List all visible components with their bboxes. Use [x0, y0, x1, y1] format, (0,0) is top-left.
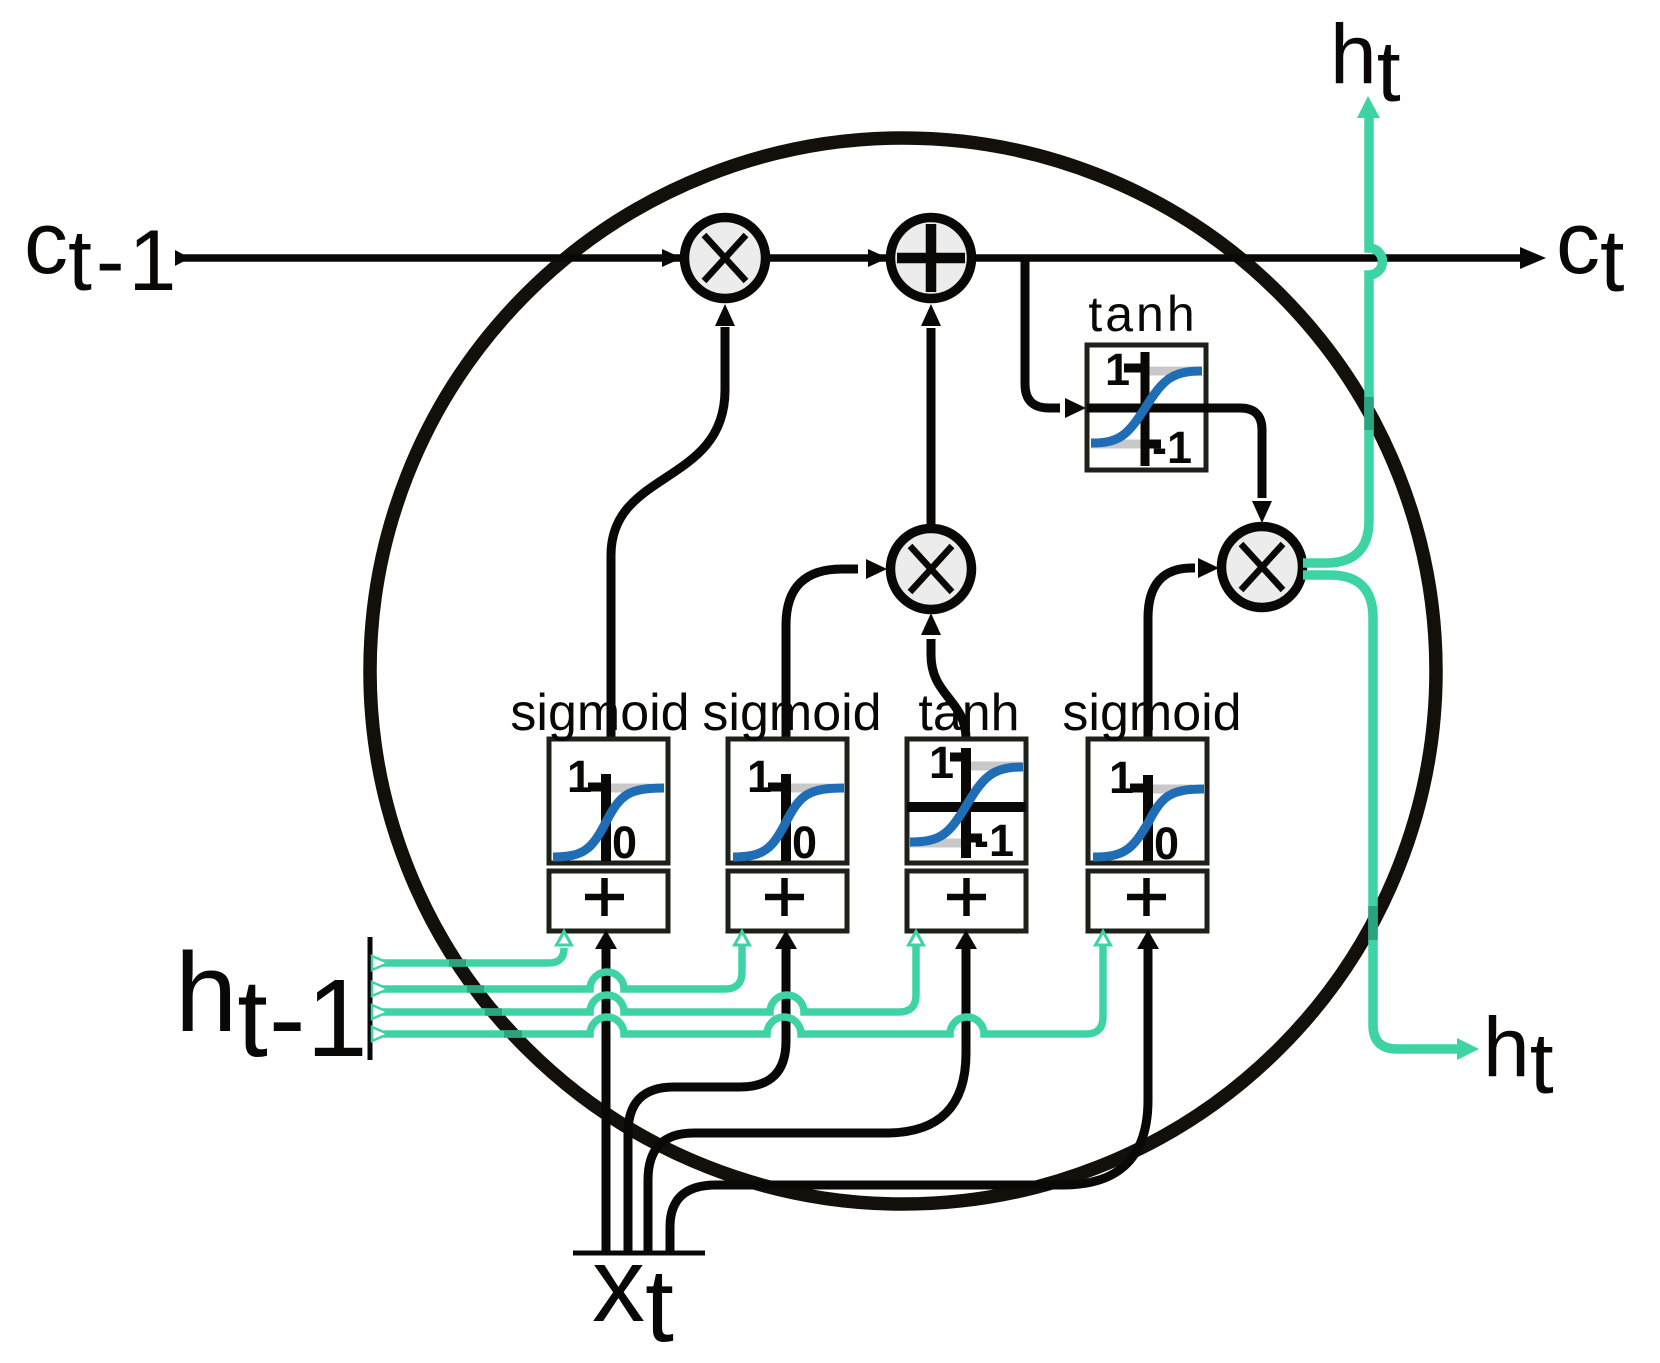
svg-text:-1: -1	[1152, 422, 1192, 473]
gate G2 sigmoid plot box	[728, 739, 847, 863]
wire branch from c line down into tanh box T1	[1025, 260, 1060, 408]
wire from gate G3 tanh to multiply node M2 bottom	[931, 639, 966, 739]
svg-text:1: 1	[1105, 344, 1130, 395]
svg-text:tanh: tanh	[1088, 286, 1197, 342]
wire x(t) line 1 to G1 plus box	[602, 946, 611, 1253]
wire from gate G4 sigmoid to multiply node M3 left	[1148, 568, 1195, 739]
wire h(t-1) green line 2 to G2	[372, 944, 742, 989]
wire x(t) line 4 to G4 plus box	[670, 946, 1148, 1253]
T1 gray asymptote bottom	[1091, 440, 1143, 449]
svg-text:1: 1	[1109, 752, 1134, 803]
wire x(t) line 2 to G2 plus box	[628, 946, 786, 1253]
wire from gate G1 sigmoid up to multiply node M1	[611, 327, 725, 739]
arrowhead into A1 bottom	[921, 304, 941, 326]
h(t-1) input bracket	[368, 937, 373, 1060]
LSTM cell boundary circle	[370, 138, 1436, 1204]
wire h(t-1) green line 1 to G1	[372, 948, 564, 963]
green start arrow markers on h(t-1) lines	[372, 956, 388, 970]
arrowhead into M1 bottom	[715, 304, 735, 326]
svg-text:1: 1	[747, 751, 772, 802]
T1 tick at -1	[1145, 440, 1161, 449]
dark green overlap marks on circle crossings	[449, 963, 522, 1034]
arrowhead into tanh box T1	[1065, 398, 1086, 418]
svg-text:-1: -1	[974, 815, 1014, 866]
arrowhead into M2 left	[866, 559, 887, 579]
dark green overlaps where green crosses circle	[1364, 397, 1374, 430]
multiply node M3	[1222, 527, 1303, 608]
arrowhead into multiply node M1	[662, 249, 682, 267]
arrowhead h(t) right	[1457, 1038, 1479, 1060]
gate G3 plus box	[907, 871, 1026, 931]
svg-text:0: 0	[792, 817, 817, 868]
T1 blue tanh curve	[1091, 371, 1202, 443]
gate G2 plus box	[728, 871, 847, 931]
wire green h(t) up output from M3	[1303, 116, 1383, 563]
arrowhead h(t) up	[1357, 96, 1380, 118]
arrowhead into M3 left	[1198, 558, 1219, 578]
x(t) input bracket	[573, 1251, 705, 1256]
gate G4 sigmoid plot box	[1088, 739, 1207, 863]
svg-text:tanh: tanh	[918, 684, 1019, 742]
svg-text:sigmoid: sigmoid	[510, 684, 689, 742]
tanh box T1 at top	[1087, 345, 1206, 470]
add node A1	[891, 218, 972, 299]
svg-text:1: 1	[929, 737, 954, 788]
svg-text:0: 0	[1154, 818, 1179, 869]
arrowhead into M3 top	[1252, 501, 1272, 523]
gate G4 plus box	[1088, 871, 1207, 931]
green open arrowheads into plus boxes	[557, 932, 572, 946]
arrowhead c(t) output	[1520, 247, 1546, 269]
multiply node M2	[891, 529, 972, 610]
wire from multiply node M2 up to add node A1	[927, 328, 936, 525]
input arrow start marker c(t-1)	[175, 250, 190, 266]
T1 tick at 1	[1124, 364, 1145, 373]
svg-text:0: 0	[612, 817, 637, 868]
wire from gate G2 sigmoid to multiply node M2 left	[786, 569, 858, 739]
gate G3 tanh plot box	[907, 739, 1026, 863]
wire green h(t) right output from M3	[1303, 575, 1458, 1049]
wire x(t) line 3 to G3 plus box	[648, 946, 966, 1253]
gate G1 plus box	[549, 871, 668, 931]
arrowhead into add node A1	[868, 249, 888, 267]
svg-text:1: 1	[567, 751, 592, 802]
arrowhead into M2 bottom	[921, 613, 941, 635]
svg-text:sigmoid: sigmoid	[1062, 684, 1241, 742]
T1 vertical axis	[1141, 352, 1150, 466]
gate G1 sigmoid plot box	[549, 739, 668, 863]
wire h(t-1) green line 3 to G3	[372, 944, 916, 1012]
svg-text:sigmoid: sigmoid	[702, 684, 881, 742]
wire through T1 continuing to multiply node M3	[1087, 408, 1262, 498]
wire h(t-1) green line 4 to G4	[372, 944, 1103, 1034]
wire c(t-1) to c(t) main horizontal line	[183, 254, 1521, 262]
multiply node M1	[685, 218, 766, 299]
T1 gray asymptote top	[1147, 367, 1196, 376]
